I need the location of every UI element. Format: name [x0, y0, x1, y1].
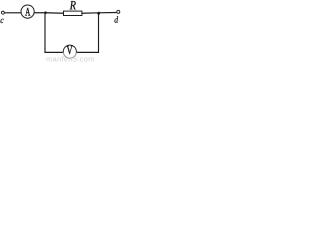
resistor R: value label: [70, 1, 76, 9]
terminal c: label: [1, 19, 4, 23]
node junction left (dot): [44, 11, 47, 14]
wire: main top wire from terminal c to terminal d: [5, 12, 117, 15]
terminal d: open circle: [117, 10, 120, 13]
ammeter A: circle: [21, 5, 34, 18]
voltmeter V: faded bottom arc: [63, 52, 76, 58]
wire: right vertical branch up to node before terminal d: [98, 13, 100, 53]
wire: bottom horizontal branch through voltmeter: [44, 51, 99, 53]
terminal d: label: [115, 16, 119, 22]
voltmeter V: letter: [67, 46, 73, 54]
wire: left vertical branch down from node after ammeter: [44, 13, 46, 53]
voltmeter V: circle: [63, 45, 76, 58]
terminal c: open circle: [1, 11, 4, 14]
ammeter A: letter: [25, 8, 30, 16]
resistor R: body: [64, 11, 82, 15]
node junction right (dot): [97, 12, 100, 15]
svg-text:manfen5.com: manfen5.com: [46, 54, 95, 62]
